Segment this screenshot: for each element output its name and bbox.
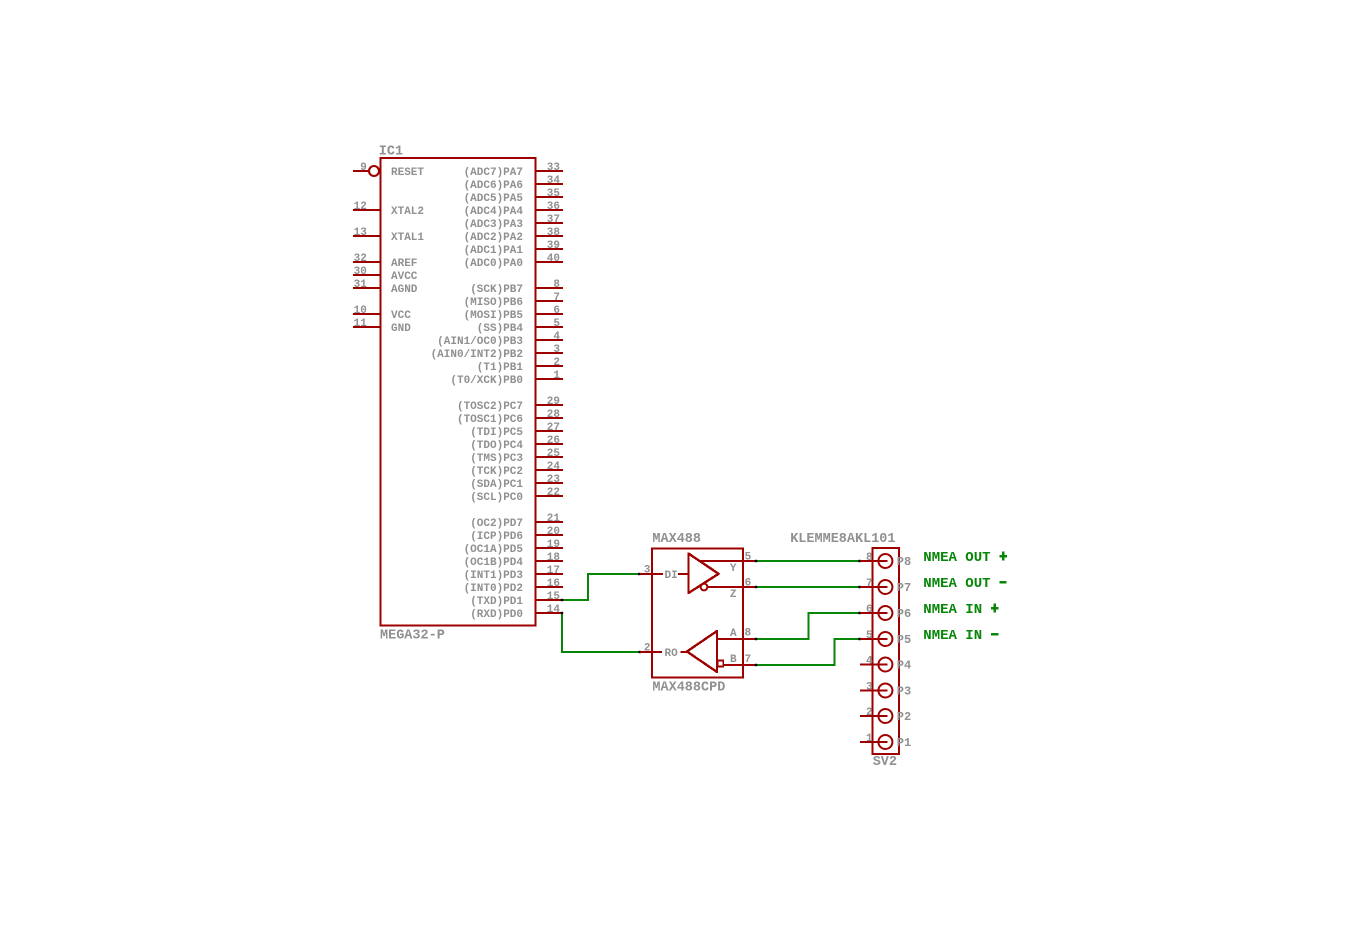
MAX488 driver buffer triangle: [689, 554, 719, 594]
SV2 pad P7 pin 7: [860, 586, 888, 588]
MAX488 inversion square bubble on B input: [718, 660, 724, 666]
svg-text:5: 5: [553, 318, 560, 330]
IC1 pin 37 (ADC3)PA3: [536, 222, 564, 224]
svg-text:(TOSC1)PC6: (TOSC1)PC6: [457, 414, 523, 426]
junction at MAX488 A pin tip: [755, 638, 757, 640]
svg-text:P5: P5: [897, 633, 911, 647]
svg-text:(OC1A)PD5: (OC1A)PD5: [464, 544, 524, 556]
IC1 pin 17 (INT1)PD3: [536, 573, 564, 575]
wire net TXD: IC1 pin 15 to MAX488 DI: [562, 574, 640, 600]
IC1 pin 36 (ADC4)PA4: [536, 209, 564, 211]
svg-text:23: 23: [547, 474, 561, 486]
IC1 pin 2 (T1)PB1: [536, 365, 564, 367]
svg-text:(OC1B)PD4: (OC1B)PD4: [464, 557, 524, 569]
svg-text:3: 3: [866, 682, 873, 694]
IC1 pin 14 (RXD)PD0: [536, 612, 564, 614]
svg-text:2: 2: [866, 707, 873, 719]
IC MAX488 (RS-485 transceiver) body: [652, 549, 743, 678]
wire net RXD: IC1 pin 14 to MAX488 RO: [562, 613, 640, 652]
svg-text:6: 6: [866, 604, 873, 616]
junction at SV2 pin 6 stub: [858, 612, 860, 614]
MAX488 inversion bubble on Z output: [701, 584, 708, 591]
svg-text:21: 21: [547, 513, 561, 525]
svg-text:25: 25: [547, 448, 561, 460]
MAX488 receiver buffer triangle: [687, 631, 717, 672]
svg-text:35: 35: [547, 188, 561, 200]
svg-text:NMEA IN: NMEA IN: [923, 628, 982, 644]
svg-text:9: 9: [360, 162, 367, 174]
svg-text:12: 12: [354, 201, 367, 213]
svg-text:8: 8: [745, 628, 752, 640]
svg-text:Y: Y: [730, 563, 737, 575]
svg-text:(ADC7)PA7: (ADC7)PA7: [464, 167, 523, 179]
svg-text:31: 31: [354, 279, 368, 291]
svg-text:(SS)PB4: (SS)PB4: [477, 323, 524, 335]
junction at MAX488 RO pin tip: [639, 651, 641, 653]
IC1 pin 26 (TDO)PC4: [536, 443, 564, 445]
svg-text:P7: P7: [897, 581, 911, 595]
IC1 pin 11 GND: [353, 326, 381, 328]
svg-text:(MISO)PB6: (MISO)PB6: [464, 297, 523, 309]
svg-text:37: 37: [547, 214, 560, 226]
svg-text:17: 17: [547, 565, 560, 577]
MAX488 pin 7 B: [724, 664, 756, 666]
svg-text:(TXD)PD1: (TXD)PD1: [470, 596, 523, 608]
svg-text:(MOSI)PB5: (MOSI)PB5: [464, 310, 524, 322]
svg-text:NMEA IN: NMEA IN: [923, 602, 982, 618]
IC1 pin 30 AVCC: [353, 274, 381, 276]
IC1 pin 8 (SCK)PB7: [536, 287, 564, 289]
svg-text:28: 28: [547, 409, 561, 421]
svg-text:RESET: RESET: [391, 167, 424, 179]
svg-text:15: 15: [547, 591, 561, 603]
svg-text:(T0/XCK)PB0: (T0/XCK)PB0: [450, 375, 523, 387]
IC1 pin 28 (TOSC1)PC6: [536, 417, 564, 419]
svg-text:(T1)PB1: (T1)PB1: [477, 362, 524, 374]
IC1 pin 33 (ADC7)PA7: [536, 170, 564, 172]
svg-text:(TMS)PC3: (TMS)PC3: [470, 453, 523, 465]
svg-text:(OC2)PD7: (OC2)PD7: [470, 518, 523, 530]
svg-text:38: 38: [547, 227, 561, 239]
IC1 pin 5 (SS)PB4: [536, 326, 564, 328]
junction at MAX488 Z pin tip: [755, 586, 757, 588]
svg-text:26: 26: [547, 435, 560, 447]
IC1 pin 18 (OC1B)PD4: [536, 560, 564, 562]
svg-text:2: 2: [644, 643, 651, 655]
junction at IC1 pin 15 tip: [561, 599, 563, 601]
svg-text:29: 29: [547, 396, 560, 408]
svg-text:24: 24: [547, 461, 561, 473]
SV2 pad P2 pin 2: [860, 715, 888, 717]
SV2 pad P3 pin 3: [860, 689, 888, 691]
IC1 pin 24 (TCK)PC2: [536, 469, 564, 471]
svg-text:XTAL2: XTAL2: [391, 206, 424, 218]
IC1 pin 15 (TXD)PD1: [536, 599, 564, 601]
IC1 pin 12 XTAL2: [353, 209, 381, 211]
svg-text:18: 18: [547, 552, 561, 564]
svg-text:7: 7: [866, 578, 873, 590]
svg-text:(TOSC2)PC7: (TOSC2)PC7: [457, 401, 523, 413]
MAX488 pin 5 Y: [699, 560, 756, 562]
svg-text:22: 22: [547, 487, 560, 499]
svg-text:20: 20: [547, 526, 560, 538]
svg-text:19: 19: [547, 539, 560, 551]
svg-text:34: 34: [547, 175, 561, 187]
svg-text:MEGA32-P: MEGA32-P: [380, 629, 445, 644]
svg-text:GND: GND: [391, 323, 411, 335]
svg-text:(ADC3)PA3: (ADC3)PA3: [464, 219, 524, 231]
svg-text:(RXD)PD0: (RXD)PD0: [470, 609, 523, 621]
svg-text:30: 30: [354, 266, 367, 278]
SV2 pad P1 pin 1: [860, 741, 888, 743]
IC1 pin 21 (OC2)PD7: [536, 521, 564, 523]
IC1 pin 32 AREF: [353, 261, 381, 263]
IC1 pin 31 AGND: [353, 287, 381, 289]
svg-text:(ADC4)PA4: (ADC4)PA4: [464, 206, 524, 218]
junction at SV2 pin 7 stub: [858, 586, 860, 588]
wire net NMEA OUT + : MAX488 Y to SV2 P8: [756, 560, 860, 562]
svg-text:Z: Z: [730, 589, 737, 601]
svg-text:6: 6: [553, 305, 560, 317]
svg-text:2: 2: [553, 357, 560, 369]
svg-text:1: 1: [866, 733, 873, 745]
svg-text:(SDA)PC1: (SDA)PC1: [470, 479, 523, 491]
svg-text:(AIN1/OC0)PB3: (AIN1/OC0)PB3: [437, 336, 523, 348]
svg-text:(ADC0)PA0: (ADC0)PA0: [464, 258, 523, 270]
svg-text:11: 11: [354, 318, 368, 330]
IC1 pin 39 (ADC1)PA1: [536, 248, 564, 250]
svg-text:4: 4: [553, 331, 560, 343]
svg-text:P2: P2: [897, 710, 911, 724]
svg-text:P8: P8: [897, 555, 911, 569]
svg-text:AREF: AREF: [391, 258, 417, 270]
svg-text:(TCK)PC2: (TCK)PC2: [470, 466, 523, 478]
svg-text:(AIN0/INT2)PB2: (AIN0/INT2)PB2: [431, 349, 523, 361]
IC1 pin 38 (ADC2)PA2: [536, 235, 564, 237]
svg-text:MAX488: MAX488: [652, 532, 701, 547]
svg-text:AGND: AGND: [391, 284, 418, 296]
svg-text:RO: RO: [665, 648, 679, 660]
IC1 pin 29 (TOSC2)PC7: [536, 404, 564, 406]
svg-text:(TDI)PC5: (TDI)PC5: [470, 427, 523, 439]
svg-text:27: 27: [547, 422, 560, 434]
svg-text:(TDO)PC4: (TDO)PC4: [470, 440, 523, 452]
svg-text:33: 33: [547, 162, 561, 174]
IC IC1 (MEGA32-P ATmega32 microcontroller) body: [381, 158, 536, 626]
IC1 pin 16 (INT0)PD2: [536, 586, 564, 588]
MAX488 pin 3 DI: [640, 573, 663, 575]
svg-text:13: 13: [354, 227, 368, 239]
svg-text:10: 10: [354, 305, 367, 317]
svg-text:8: 8: [866, 552, 873, 564]
SV2 pad P8 pin 8: [860, 560, 888, 562]
svg-text:7: 7: [745, 654, 752, 666]
svg-text:1: 1: [553, 370, 560, 382]
IC1 pin 13 XTAL1: [353, 235, 381, 237]
wire net NMEA IN + : MAX488 A to SV2 P6: [756, 613, 860, 639]
junction at MAX488 DI pin tip: [638, 573, 640, 575]
svg-text:P6: P6: [897, 607, 911, 621]
IC1 pin 1 (T0/XCK)PB0: [536, 378, 564, 380]
svg-text:IC1: IC1: [379, 145, 403, 160]
svg-text:SV2: SV2: [873, 755, 897, 770]
SV2 pad P4 pin 4: [860, 663, 888, 665]
svg-text:P4: P4: [897, 659, 911, 673]
svg-text:5: 5: [866, 630, 873, 642]
svg-text:KLEMME8AKL101: KLEMME8AKL101: [790, 532, 895, 547]
junction at SV2 pin 5 stub: [858, 638, 860, 640]
svg-text:32: 32: [354, 253, 367, 265]
svg-text:(ADC2)PA2: (ADC2)PA2: [464, 232, 523, 244]
svg-text:P1: P1: [897, 736, 911, 750]
svg-text:NMEA OUT: NMEA OUT: [923, 550, 990, 566]
IC1 pin 7 (MISO)PB6: [536, 300, 564, 302]
IC1 pin 20 (ICP)PD6: [536, 534, 564, 536]
IC1 pin 25 (TMS)PC3: [536, 456, 564, 458]
connector SV2 (KLEMME8AKL101) body: [872, 548, 899, 754]
svg-text:(ADC5)PA5: (ADC5)PA5: [464, 193, 524, 205]
svg-text:MAX488CPD: MAX488CPD: [652, 681, 725, 696]
svg-text:(ADC6)PA6: (ADC6)PA6: [464, 180, 523, 192]
svg-text:16: 16: [547, 578, 560, 590]
IC1 pin 34 (ADC6)PA6: [536, 183, 564, 185]
svg-text:NMEA OUT: NMEA OUT: [923, 576, 990, 592]
MAX488 pin 6 Z: [708, 586, 756, 588]
svg-text:(INT0)PD2: (INT0)PD2: [464, 583, 523, 595]
IC1 pin 22 (SCL)PC0: [536, 495, 564, 497]
IC1 pin 9 RESET: [353, 170, 369, 172]
svg-text:AVCC: AVCC: [391, 271, 418, 283]
svg-text:(ICP)PD6: (ICP)PD6: [470, 531, 523, 543]
MAX488 pin 2 RO: [640, 651, 662, 653]
svg-text:36: 36: [547, 201, 560, 213]
svg-text:(INT1)PD3: (INT1)PD3: [464, 570, 524, 582]
wire net NMEA IN - : MAX488 B to SV2 P5: [756, 639, 860, 665]
svg-text:6: 6: [745, 578, 752, 590]
SV2 pad P5 pin 5: [860, 638, 888, 640]
svg-text:5: 5: [745, 552, 752, 564]
IC1 pin 3 (AIN0/INT2)PB2: [536, 352, 564, 354]
IC1 pin 27 (TDI)PC5: [536, 430, 564, 432]
svg-text:3: 3: [553, 344, 560, 356]
MAX488 pin 8 A: [717, 638, 755, 640]
svg-text:8: 8: [553, 279, 560, 291]
IC1 pin 6 (MOSI)PB5: [536, 313, 564, 315]
svg-text:4: 4: [866, 656, 873, 668]
junction at SV2 pin 8 stub: [858, 560, 860, 562]
IC1 pin 4 (AIN1/OC0)PB3: [536, 339, 564, 341]
SV2 pad P6 pin 6: [860, 612, 888, 614]
svg-text:40: 40: [547, 253, 560, 265]
svg-text:B: B: [730, 654, 737, 666]
svg-text:7: 7: [553, 292, 560, 304]
svg-text:(SCL)PC0: (SCL)PC0: [470, 492, 523, 504]
svg-text:14: 14: [547, 604, 561, 616]
wire net NMEA OUT - : MAX488 Z to SV2 P7: [756, 586, 860, 588]
svg-text:XTAL1: XTAL1: [391, 232, 424, 244]
IC1 pin 19 (OC1A)PD5: [536, 547, 564, 549]
junction at MAX488 B pin tip: [755, 664, 757, 666]
svg-text:(SCK)PB7: (SCK)PB7: [470, 284, 523, 296]
IC1 pin 23 (SDA)PC1: [536, 482, 564, 484]
IC1 pin 35 (ADC5)PA5: [536, 196, 564, 198]
svg-text:39: 39: [547, 240, 560, 252]
svg-text:VCC: VCC: [391, 310, 411, 322]
svg-text:P3: P3: [897, 685, 911, 699]
svg-text:3: 3: [644, 565, 651, 577]
junction at MAX488 Y pin tip: [755, 560, 757, 562]
IC1 pin 40 (ADC0)PA0: [536, 261, 564, 263]
svg-text:A: A: [730, 628, 737, 640]
svg-text:(ADC1)PA1: (ADC1)PA1: [464, 245, 524, 257]
junction at IC1 pin 14 tip: [561, 612, 563, 614]
svg-text:DI: DI: [665, 570, 678, 582]
IC1 pin 10 VCC: [353, 313, 381, 315]
